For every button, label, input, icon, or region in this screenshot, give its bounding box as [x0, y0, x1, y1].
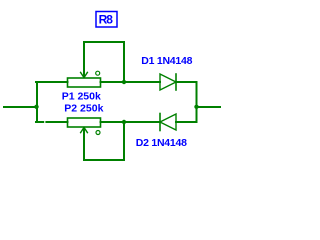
potentiometer P2 wiper arrowhead — [81, 127, 88, 132]
net label R8 box — [96, 12, 117, 28]
wire D2 anode out — [176, 121, 197, 123]
wire P2 left segment b — [46, 121, 67, 123]
diode D2 cathode bar — [159, 114, 161, 131]
wire P2 wiper drop — [83, 128, 85, 160]
diode D2 triangle — [160, 114, 176, 130]
wire bottom-right vertical up to node B — [123, 122, 125, 160]
wire bottom horizontal — [84, 159, 124, 161]
svg-text:D1 1N4148: D1 1N4148 — [141, 55, 192, 67]
svg-text:P2 250k: P2 250k — [64, 103, 103, 115]
wire P1 wiper drop — [83, 42, 85, 77]
node left junction — [34, 105, 38, 109]
potentiometer P1 body — [68, 78, 101, 87]
svg-text:R8: R8 — [99, 13, 114, 27]
wire P2 left segment a — [36, 121, 43, 123]
wire D1 cathode out — [176, 81, 197, 83]
wire top-right vertical down to node A — [123, 42, 125, 82]
potentiometer P2 body — [68, 118, 101, 127]
svg-text:D2 1N4148: D2 1N4148 — [136, 137, 187, 149]
wire left input — [4, 106, 37, 108]
wire right output — [197, 106, 221, 108]
node A junction — [122, 80, 126, 84]
diode D1 triangle — [160, 74, 176, 90]
wire top horizontal (P1 wiper net) — [84, 41, 124, 43]
diode D1 cathode bar — [175, 74, 177, 90]
node right junction — [194, 105, 198, 109]
potentiometer P2 pin marker circle — [96, 131, 100, 135]
wire right vertical bus — [196, 82, 198, 122]
wire P2 right to node B — [101, 121, 161, 123]
svg-text:P1 250k: P1 250k — [62, 91, 101, 103]
node B junction — [122, 120, 126, 124]
potentiometer P1 pin marker circle — [96, 71, 100, 75]
wire P1 right to node A — [101, 81, 161, 83]
wire P1 left — [36, 81, 68, 83]
potentiometer P1 wiper arrowhead — [81, 72, 88, 77]
wire left vertical bus — [36, 82, 38, 122]
